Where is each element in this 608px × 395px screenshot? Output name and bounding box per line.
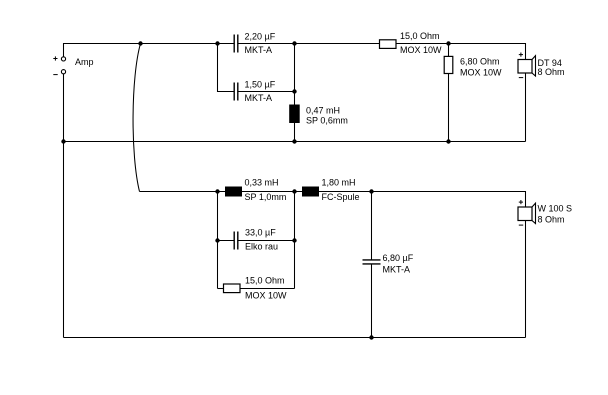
wire L1 to return rail [294, 123, 296, 142]
svg-text:Elko rau: Elko rau [245, 242, 278, 252]
node junction dot top of C2 branch [215, 41, 219, 45]
capacitor C2 1,50 uF plates [234, 83, 238, 101]
svg-text:1,80 mH: 1,80 mH [322, 177, 356, 187]
wire node B down to R2 [448, 44, 450, 57]
speaker DT 94 minus sign [519, 77, 523, 79]
wire between L2 and L3 [242, 191, 302, 193]
svg-text:1,50 µF: 1,50 µF [245, 80, 276, 90]
resistor R3 15,0 Ohm body [224, 284, 241, 293]
node C junction dot [369, 189, 373, 193]
svg-text:Amp: Amp [75, 57, 94, 67]
node junction dot L1 bottom on return rail [292, 139, 296, 143]
wire R2 to return rail [448, 74, 450, 142]
speaker W 100 S box [518, 207, 532, 221]
speaker DT 94 plus sign [519, 53, 523, 57]
svg-text:6,80 Ohm: 6,80 Ohm [460, 57, 500, 67]
svg-text:MKT-A: MKT-A [245, 93, 273, 103]
svg-text:FC-Spule: FC-Spule [322, 192, 360, 202]
resistor R2 6,80 Ohm body [444, 56, 453, 73]
svg-text:0,33 mH: 0,33 mH [245, 177, 279, 187]
speaker DT 94 box [518, 60, 532, 74]
speaker W 100 S cone [532, 203, 536, 223]
svg-text:8 Ohm: 8 Ohm [538, 67, 565, 77]
wire C2 row to right vertical [238, 91, 294, 93]
node junction dot C3 left [215, 238, 219, 242]
node junction dot low-pass branch left [215, 189, 219, 193]
amp minus sign [53, 74, 57, 76]
node junction dot C4 bottom on bottom rail [369, 335, 373, 339]
node B junction dot [446, 41, 450, 45]
svg-text:MKT-A: MKT-A [383, 264, 411, 274]
wire top rail after R1 to tweeter [396, 44, 526, 60]
wire C4 to bottom rail [371, 264, 373, 338]
speaker DT 94 cone [532, 56, 536, 76]
capacitor C3 33,0 uF plates [234, 232, 238, 250]
wire branch down to C2 row [218, 44, 234, 92]
inductor L3 1,80 mH body [302, 187, 319, 197]
capacitor C4 6,80 uF plates [363, 260, 381, 264]
inductor L1 0,47 mH body [289, 105, 300, 124]
node junction dot between L2 and L3 [292, 189, 296, 193]
wire right vertical of RC parallel block [294, 192, 296, 289]
node junction dot amp minus on return rail [61, 139, 65, 143]
wire R3 row right [240, 288, 295, 290]
svg-text:0,47 mH: 0,47 mH [306, 105, 340, 115]
svg-text:2,20 µF: 2,20 µF [245, 32, 276, 42]
node junction dot top of L1 branch [292, 41, 296, 45]
svg-text:MOX 10W: MOX 10W [245, 291, 287, 301]
svg-text:SP 0,6mm: SP 0,6mm [306, 116, 348, 126]
wire curved feed from node A to low-pass section [133, 44, 140, 192]
svg-text:MKT-A: MKT-A [245, 45, 273, 55]
wire R3 row left [218, 288, 224, 290]
svg-text:W 100 S: W 100 S [538, 204, 573, 214]
wire node C down to C4 [371, 192, 373, 260]
amp terminal plus circle [61, 57, 65, 61]
wire bottom rail [64, 337, 526, 339]
wire L3 to woofer [319, 192, 526, 208]
capacitor C1 2,20 uF plates [234, 35, 238, 53]
node junction dot C2 right [292, 89, 296, 93]
svg-text:MOX 10W: MOX 10W [400, 45, 442, 55]
svg-text:33,0 µF: 33,0 µF [245, 227, 276, 237]
node junction dot C3 right [292, 238, 296, 242]
wire C3 row right [238, 240, 294, 242]
svg-text:SP 1,0mm: SP 1,0mm [245, 192, 287, 202]
svg-text:6,80 µF: 6,80 µF [383, 253, 414, 263]
speaker W 100 S plus sign [519, 200, 523, 204]
svg-text:8 Ohm: 8 Ohm [538, 214, 565, 224]
svg-text:MOX 10W: MOX 10W [460, 68, 502, 78]
svg-text:15,0 Ohm: 15,0 Ohm [400, 31, 440, 41]
amp terminal minus circle [61, 70, 65, 74]
wire right vertical top section into L1 [294, 44, 296, 105]
inductor L2 0,33 mH body [225, 187, 242, 197]
wire amp minus lead down left side [63, 74, 65, 338]
wire tweeter to return rail [525, 73, 527, 142]
wire amp plus lead to top rail [64, 44, 234, 57]
wire C3 row left [218, 240, 234, 242]
node A junction dot [138, 41, 142, 45]
svg-text:15,0 Ohm: 15,0 Ohm [245, 276, 285, 286]
wire return rail [64, 141, 526, 143]
node junction dot R2 bottom on return rail [446, 139, 450, 143]
speaker W 100 S minus sign [519, 224, 523, 226]
wire woofer to bottom rail [525, 221, 527, 338]
wire left vertical of RC parallel block [217, 192, 219, 289]
resistor R1 15,0 Ohm body [380, 40, 397, 49]
amp plus sign [53, 56, 57, 60]
wire low-pass branch to L2 [140, 191, 226, 193]
wire top rail after C1 [238, 43, 379, 45]
